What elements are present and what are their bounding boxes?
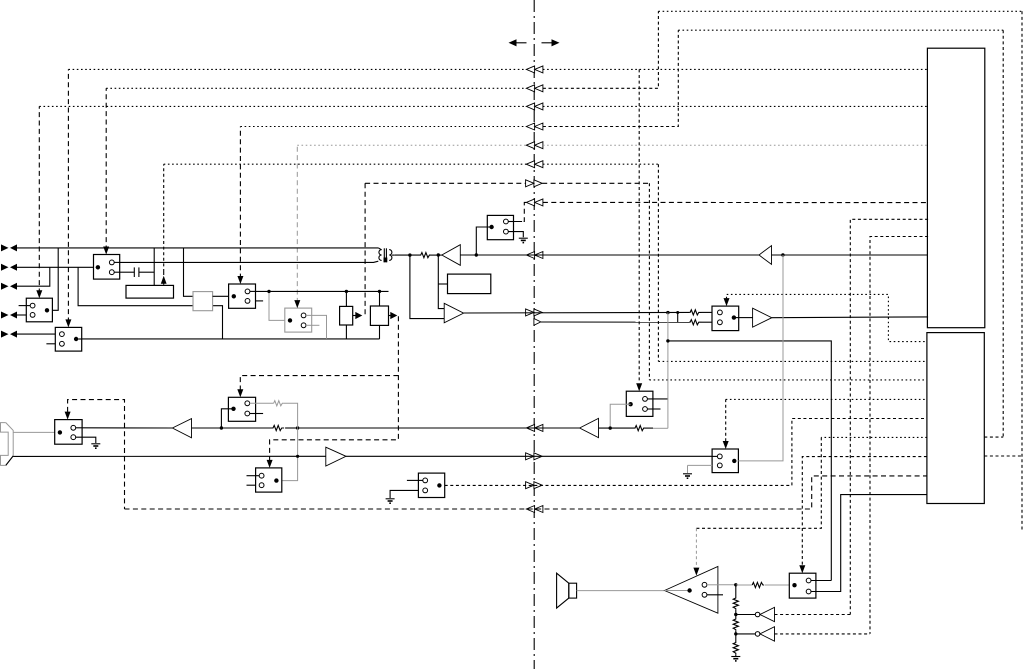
net MUTE (dashed, y=202) — [543, 201, 928, 203]
wire BX2 to relay RL-D common — [213, 295, 229, 297]
amp A7 (open buffer on RX wire, points left) — [759, 246, 772, 265]
junction on T1 secondary — [408, 253, 411, 256]
amp A6 (loudspeaker amp with mute contacts, points left) — [665, 567, 724, 614]
wire L1 tap to relay RL-B common — [52, 248, 58, 310]
relay RL-D coil arrow (from net SEL4) — [237, 276, 243, 284]
capacitor C1 in RL-A bottom contact branch — [120, 267, 155, 277]
A6 output wire (gray) to divider node — [718, 584, 736, 586]
inverter V2 (volume tap 2) — [736, 627, 870, 641]
box BX3 (AGC block above amp A2) — [448, 274, 491, 294]
ground GND5 (divider chain) — [731, 657, 740, 661]
net SEL6 (dotted, y=164) — [163, 164, 165, 272]
relay RL-C — [46, 327, 81, 351]
net handset-coil long line (y=509) to IC2 (y=475.9) — [125, 476, 927, 509]
RL-H common wire down to RX wire (gray) — [610, 404, 630, 428]
ground GND4 (relay RL-I contact) — [683, 474, 692, 478]
inverter V1 (volume tap 1) — [736, 607, 851, 621]
centerline boundary (dash-dot) — [533, 0, 535, 669]
IC2 right-side net to top bus x=1022 — [984, 455, 1022, 457]
net SEL2 right side up to top dotted bus y=11 — [543, 11, 659, 88]
handset mic wire to amp A3 — [13, 455, 326, 457]
junction node to relay RL-F — [475, 253, 478, 256]
solid branch y=340.9 toward relay RL-M — [668, 341, 831, 581]
A4 output wire crossing boundary to earpiece path — [298, 427, 580, 429]
relay RL-K2 — [247, 468, 282, 492]
IC2 solid wire to relay RL-M contact (y=494.6) — [816, 495, 927, 592]
relay RL-L common dashed net to IC2 (y=485 / y=418.5) — [445, 419, 927, 486]
resistor block RB1 — [340, 291, 363, 339]
boundary crossing arrows (open, pointing right) — [526, 180, 543, 489]
relay RL-F — [476, 215, 524, 255]
wire RL-D top contact bus y=291.4 — [256, 290, 389, 292]
relay RL-C coil arrow (from net SEL1) — [65, 319, 71, 327]
junction node to relay RL-I path — [781, 253, 784, 256]
relay RL-B coil arrow (from net SEL3) — [36, 290, 42, 298]
relay RL-E (gray) — [285, 308, 320, 332]
relay RL-M coil arrow (from IC2 net y=456.6) — [799, 565, 805, 573]
net SEL4 (y=126.5) — [239, 127, 241, 279]
TX input path from T1 node down to amp A2 — [410, 255, 444, 319]
A4 input wire with resistor R6 — [599, 427, 635, 429]
wire L3 y=286.2 joined up to wire L2 — [17, 267, 50, 286]
amp A4 (RX hybrid amp, points left) — [580, 418, 599, 437]
resistor block RB2 — [370, 291, 397, 339]
net from inverter V1 output to IC1 (y=219.3) — [850, 219, 928, 614]
divider chain: resistor R11 — [735, 615, 737, 619]
amp A5 (earpiece amp, points left) — [172, 419, 191, 438]
relay RL-I — [688, 449, 739, 473]
speaker wire (gray) to amp A6 — [577, 590, 665, 592]
feedback path from RX wire node down to amp A2 input — [438, 255, 444, 309]
RL-E common wire up to bus y=291.4 — [269, 291, 285, 320]
RB1 output dashed net up to net DIAL — [364, 183, 366, 316]
net SEL1 (dotted, y=69) — [67, 69, 69, 322]
wire L1 tap to box BX2 via x=183.5 — [184, 248, 194, 296]
amp A3 (mic amp, points right) — [326, 447, 346, 466]
relay RL-H coil arrow (from net SEL1) — [636, 383, 642, 391]
TX output wire to IC1 — [772, 316, 928, 319]
speaker LS1 — [557, 573, 577, 608]
TX pair tie bar — [677, 312, 679, 322]
resistor R9 (A6 out to relay RL-M) — [736, 584, 752, 586]
left connector arrows (line inputs) — [1, 244, 17, 337]
TX wire pair to relay RL-G — [464, 311, 689, 314]
IC block IC2 (interface, right bottom) — [927, 333, 984, 504]
IC2 right-side net to top bus x=1003 — [984, 436, 1003, 438]
relay RL-G — [712, 306, 739, 331]
RL-E top contact down to bus y=338.9 — [306, 315, 327, 339]
transformer T1 — [378, 248, 395, 262]
junction dots on bus y=291.4 — [267, 290, 270, 293]
relay RL-A coil arrow (from net SEL2) — [103, 247, 109, 255]
relay RL-G coil arrow + net to IC2 — [724, 298, 730, 306]
relay RL-D — [229, 284, 264, 308]
relay RL-I coil arrow + net to IC2 (y=399.4) — [723, 441, 729, 449]
net IC2 to amp A6 mute coil (y=437.4 / y=528.3) — [821, 436, 927, 438]
relay RL-E coil arrow (from gray net SEL5) — [294, 300, 300, 308]
net SEL1 right branch to relay RL-H coil — [543, 68, 928, 70]
wire L2 tap down to node row y=305.7 — [78, 267, 222, 339]
net IC2 to relay RL-M coil (y=456.6) — [802, 457, 927, 567]
net from inverter V2 output to IC1 (y=236.5) — [870, 237, 928, 634]
relay RL-H — [626, 391, 668, 416]
handset jack J1 — [1, 423, 14, 466]
wire from RL-C common (y=338.9) to resistor blocks — [78, 338, 81, 340]
BX1 output up-arrow into net SEL6 — [163, 272, 165, 285]
ground GND2 (relay RL-J) — [91, 444, 100, 448]
main RX wire y=255 from IC1 to amp A1 — [460, 254, 928, 256]
wire RL-J to amp A5 (earpiece path) — [82, 427, 172, 429]
volume divider chain: resistor R10 — [735, 585, 737, 597]
net DIAL (dashed, y=183, flows right) — [365, 182, 525, 184]
ground GND1 (relay RL-F contact) — [519, 238, 528, 242]
wire T1 secondary to amp A1 — [395, 254, 420, 256]
box BX2 (gray block) — [193, 292, 213, 311]
boundary single arrow right (wire start y=322) — [534, 319, 541, 326]
ground GND3 (relay RL-L) — [386, 499, 395, 503]
wire A5 to attenuator — [192, 427, 273, 429]
wire L2 (ring) y=267.3 to relay RL-A common — [17, 266, 94, 268]
wire L1 tap to box BX1 — [153, 248, 155, 286]
relay RL-J coil arrow + dashed net loop to long line y=509 — [65, 412, 71, 420]
relay RL-B — [19, 298, 53, 322]
resistor R3 — [420, 253, 431, 258]
TX wire from amp A3 to relay RL-I — [346, 455, 712, 457]
boundary split arrow right — [542, 39, 560, 46]
box BX1 (dial/logic block) — [126, 285, 174, 298]
relay RL-M — [789, 573, 840, 598]
wire L5 y=334.1 to relay RL-C contact — [17, 333, 56, 335]
wire from RL-A top contact to transformer T1 (y=262.7) — [120, 261, 379, 262]
resistor R5 (TX wire 2) — [689, 320, 701, 325]
wire L4 y=315 to relay RL-B contact — [17, 314, 27, 316]
amp A6 mute coil arrow (gray dashed from IC2) — [695, 528, 697, 567]
gray link down to relay RL-K2 common — [282, 428, 298, 481]
amp A8 (TX buffer, points right) — [739, 317, 753, 319]
RB2 output dashed net down to relay coils K1/K2 — [270, 316, 399, 461]
relay RL-L — [390, 473, 445, 498]
divider chain: resistor R12 — [735, 634, 737, 642]
relay RL-K1 (attenuator bypass) — [221, 397, 263, 428]
RL-I common gray wire up to RX wire y=255 — [738, 255, 783, 461]
amp A2 (TX amp, points right) — [444, 303, 463, 323]
relay RL-K2 coil arrow — [267, 460, 273, 468]
resistor R7 (in earpiece wire) — [272, 425, 284, 430]
IC block IC1 (codec, right top) — [927, 48, 984, 328]
RL-K1 bypass branch (gray) with resistor R8 — [250, 401, 298, 428]
amp A1 (RX line driver, points left) — [442, 245, 461, 266]
boundary crossing arrows (open, pointing left) — [526, 66, 543, 513]
BX3 input stub from feedback node — [438, 283, 447, 285]
net SEL2 (dashed, y=88) — [105, 88, 107, 250]
sidetone bus (gray vertical x=668) — [667, 313, 669, 429]
boundary split arrow left — [509, 39, 527, 46]
relay RL-K1 coil arrow — [237, 389, 243, 397]
wire L1 (tip) y=247.9 — [17, 247, 379, 249]
handset earpiece wire (gray) to relay RL-J — [13, 431, 56, 433]
net SEL3 (dotted, y=106) — [38, 106, 40, 293]
relay RL-J — [55, 420, 96, 445]
relay RL-A — [94, 255, 120, 280]
net SEL5 (gray dotted, y=145) — [296, 145, 298, 303]
resistor R4 (TX wire 1) — [689, 310, 701, 315]
